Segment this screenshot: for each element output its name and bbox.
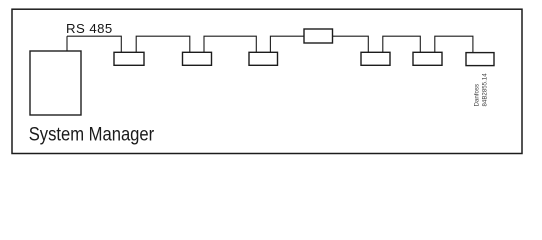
- System Manager box: [30, 51, 81, 115]
- inline unit (repeater): [304, 29, 333, 43]
- svg-text:84B2855.14: 84B2855.14: [481, 73, 488, 107]
- wire: bus segment 6 (device 4 to device 5): [383, 36, 421, 52]
- svg-text:System Manager: System Manager: [29, 125, 155, 146]
- label Danfoss drawing number (rotated): [474, 73, 489, 107]
- wire: bus segment 1 (SM to device 1): [67, 36, 121, 52]
- wire: bus segment 3 (device 2 to device 3): [204, 36, 256, 52]
- device box 2: [183, 52, 212, 65]
- wire: System Manager riser: [66, 36, 68, 51]
- device box 1: [114, 52, 144, 65]
- wire: bus segment 5 (inline unit to device 4): [333, 36, 369, 52]
- border frame: [12, 9, 522, 153]
- wire: bus segment 7 (device 5 to device 6): [435, 36, 473, 52]
- wire: bus segment 4 (device 3 to inline unit): [270, 36, 304, 52]
- device box 3: [249, 52, 278, 65]
- wire: bus segment 2 (device 1 to device 2): [136, 36, 190, 52]
- device box 5: [413, 52, 442, 65]
- svg-text:RS 485: RS 485: [66, 21, 113, 36]
- device box 6: [466, 53, 494, 66]
- svg-text:Danfoss: Danfoss: [474, 84, 481, 107]
- device box 4: [361, 52, 390, 65]
